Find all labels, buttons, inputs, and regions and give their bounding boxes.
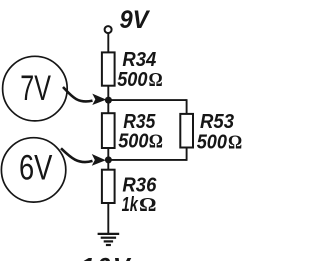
- svg-text:1k: 1k: [122, 193, 139, 216]
- wire node B to R36: [107, 160, 109, 170]
- resistor R34: [102, 52, 115, 85]
- wire node A to R53 branch (horizontal): [108, 99, 186, 101]
- svg-text:9V: 9V: [120, 6, 151, 34]
- arrow from 6V bubble to node B: [61, 148, 93, 162]
- arrowhead of 6V pointer: [92, 154, 106, 166]
- svg-text:7V: 7V: [20, 68, 51, 108]
- node B (junction dot, 6V node): [105, 156, 112, 163]
- wire node A to R35: [107, 100, 109, 113]
- terminal 9V (open circle): [105, 26, 112, 33]
- wire R34 to node A: [107, 86, 109, 100]
- svg-text:500: 500: [117, 68, 148, 91]
- wire R53 to node B branch: [186, 148, 188, 161]
- wire from 9V terminal to R34: [107, 33, 109, 53]
- svg-text:500: 500: [118, 130, 149, 153]
- arrow from 7V bubble to node A: [63, 87, 93, 101]
- ground: [98, 234, 120, 245]
- resistor R36: [102, 170, 115, 203]
- resistor R35: [102, 113, 115, 148]
- wire down to R53: [186, 99, 188, 114]
- svg-text:500: 500: [197, 130, 228, 153]
- probe bubble 7V: [3, 56, 68, 121]
- resistor R53: [180, 114, 193, 148]
- arrowhead of 7V pointer: [92, 94, 106, 105]
- node A (junction dot, 7V node): [105, 97, 112, 104]
- svg-text:Ω: Ω: [139, 194, 157, 216]
- svg-text:Ω: Ω: [149, 131, 163, 153]
- wire R36 to ground: [107, 203, 109, 233]
- svg-text:Ω: Ω: [149, 69, 163, 91]
- probe bubble 6V: [1, 138, 65, 202]
- svg-text:10V: 10V: [81, 254, 132, 261]
- svg-text:6V: 6V: [19, 147, 53, 187]
- wire R35 to node B: [107, 148, 109, 160]
- wire R53 branch to node B (horizontal): [108, 159, 186, 161]
- svg-text:Ω: Ω: [228, 131, 242, 153]
